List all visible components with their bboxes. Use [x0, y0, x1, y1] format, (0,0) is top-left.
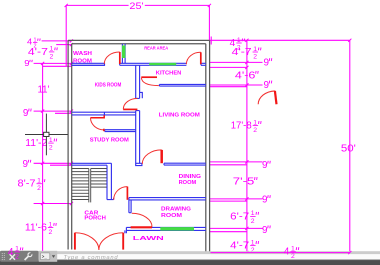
door D5 study room [90, 115, 104, 131]
dim text 4half-inch right [230, 37, 245, 52]
dimension line B overlay [211, 251, 352, 254]
dim text 4ft-7half left [28, 46, 57, 61]
svg-text:2: 2 [253, 53, 257, 60]
dim text 9in right kitchen-bottom [264, 80, 272, 91]
left ext line 9in kids-study b [55, 112, 71, 114]
door D10 gate right leaf [99, 233, 123, 250]
svg-text:2: 2 [291, 253, 295, 260]
right ext line 9in kitchen-top b [210, 66, 247, 68]
wall corridor south (study north-east) [105, 130, 136, 132]
svg-text:7'-5: 7'-5 [233, 177, 255, 188]
wall stairs east [107, 163, 114, 199]
window W3 lawn wall (green) [160, 227, 194, 231]
door D7 stairs/porch [114, 187, 128, 200]
right ext line 9in kitchen-top a [210, 61, 263, 63]
dim text 11ft-2half left [25, 137, 56, 152]
svg-text:9: 9 [23, 108, 29, 119]
left ext line 9in study-stairs b [50, 164, 71, 166]
svg-text:ROOM: ROOM [179, 180, 197, 186]
exterior wall right [206, 40, 210, 251]
extension stub right 4half [210, 37, 212, 45]
door D2 rear area [186, 52, 200, 64]
command bar icon block [0, 251, 39, 262]
door D1 washroom [104, 52, 120, 64]
svg-text:4'-7: 4'-7 [28, 47, 49, 58]
right ext line 9in dining-drawing b [210, 200, 247, 202]
svg-text:4'-7: 4'-7 [232, 47, 253, 58]
svg-text:LAWN: LAWN [133, 236, 165, 242]
svg-text:8'-7: 8'-7 [18, 179, 36, 190]
dim text 9in right living [262, 160, 270, 171]
svg-text:2: 2 [251, 218, 255, 225]
svg-text:2: 2 [49, 229, 53, 236]
wall spine upper (kids/kitchen) [136, 65, 140, 98]
svg-text:9: 9 [262, 195, 268, 206]
dimension 50' text [341, 144, 356, 155]
wall spine lower (kids/living) [136, 111, 142, 166]
dim text 9in right kitchen-top [264, 58, 272, 69]
svg-text:9: 9 [264, 80, 270, 91]
exterior wall left [68, 40, 72, 249]
wall drawing west [129, 198, 131, 213]
wall kids/study [72, 112, 136, 115]
dim text 9in left washroom [24, 59, 32, 68]
label CAR PORCH [84, 211, 106, 222]
left ext line 9in kids-study a [34, 110, 73, 113]
bottom dimension line B [211, 251, 350, 254]
label LIVING ROOM [159, 112, 201, 118]
dim text 9in left study [23, 159, 31, 170]
door D8 drawing room [131, 213, 152, 227]
wall washroom-east [122, 44, 125, 64]
wall drawing north (dining south) [129, 198, 206, 200]
dim text 4ft-7half right-bottom [230, 239, 258, 254]
svg-text:DRAWING: DRAWING [161, 207, 191, 213]
svg-text:LIVING ROOM: LIVING ROOM [159, 112, 201, 118]
dimension 25' line (top) [65, 4, 211, 7]
door D11 block symbol (outside right) [258, 91, 276, 104]
dim text 4half bottom-left [8, 246, 23, 261]
right ext line 9in dining-drawing a [210, 198, 263, 200]
svg-text:4: 4 [284, 247, 290, 258]
svg-text:2: 2 [253, 127, 257, 134]
svg-text:>_: >_ [42, 254, 48, 259]
right ext line 9in drawing-lawn a [210, 227, 263, 229]
svg-text:KITCHEN: KITCHEN [156, 70, 182, 76]
dim text 4half-inch left [27, 38, 40, 50]
door D9 gate left leaf [75, 233, 99, 250]
wall stub at gate right [125, 230, 127, 233]
svg-text:50': 50' [341, 144, 356, 155]
wall kitchen-south [159, 84, 205, 86]
svg-text:STUDY ROOM: STUDY ROOM [90, 137, 130, 143]
right ext line 9in drawing-lawn b [210, 231, 247, 233]
svg-text:Type a command: Type a command [64, 255, 119, 261]
dim text 7ft-5 right [233, 177, 257, 188]
extension line top-right [208, 5, 210, 40]
left ext line 9in washroom b [43, 65, 72, 67]
wall rear-south segment3 [201, 63, 206, 65]
svg-text:REAR AREA: REAR AREA [144, 45, 169, 50]
svg-text:2: 2 [15, 253, 19, 260]
exterior wall top [68, 40, 210, 43]
svg-text:11': 11' [38, 84, 50, 95]
command bar background [0, 251, 380, 260]
right ext line 9in living-dining b [210, 164, 247, 166]
left ext line 4-7half [56, 43, 73, 46]
dim text 4ft-7half right-top [232, 46, 261, 61]
label DINING ROOM [179, 174, 201, 186]
dim text 17ft-8half right [231, 119, 261, 134]
right ext line 9in kitchen-bottom a [210, 84, 263, 86]
wall living/dining [164, 163, 206, 165]
svg-text:9: 9 [23, 159, 29, 170]
right ext line 9in living-dining a [210, 161, 263, 163]
taskbar dark strip [0, 260, 380, 265]
label KITCHEN [156, 70, 182, 76]
stairs [72, 169, 107, 203]
left ext line 9in washroom a [34, 62, 73, 65]
svg-text:4'-6: 4'-6 [235, 70, 256, 81]
label REAR AREA [144, 45, 169, 50]
dim text 4half bottom-right [284, 246, 299, 261]
wall rear-south segment2 (window part) [120, 63, 187, 65]
svg-text:9: 9 [262, 160, 268, 171]
window W1 rear/kitchen north (green) [149, 63, 176, 66]
dim text 9in right drawing [262, 225, 270, 236]
label LAWN [133, 236, 165, 242]
label KIDS ROOM [95, 82, 122, 88]
svg-text:6'-7: 6'-7 [230, 211, 249, 222]
svg-text:2: 2 [49, 145, 53, 152]
crosshair cursor [25, 114, 68, 156]
wall stairs north (study south) [72, 163, 112, 165]
right vertical dimension line [245, 39, 248, 253]
svg-text:9: 9 [24, 59, 30, 68]
label WASH ROOM [73, 51, 92, 64]
svg-text:9: 9 [264, 58, 270, 69]
svg-text:4: 4 [27, 38, 33, 47]
dim text 6ft-7half right [230, 210, 258, 225]
dim text 9in right dining [262, 195, 270, 206]
svg-text:11'-2: 11'-2 [25, 138, 47, 149]
svg-text:2: 2 [50, 53, 54, 60]
svg-text:17'-8: 17'-8 [231, 121, 252, 132]
extension line right top long [210, 39, 350, 41]
extension line top-left [65, 5, 67, 66]
svg-text:KIDS ROOM: KIDS ROOM [95, 82, 122, 88]
command prompt box [39, 251, 58, 262]
left ext line 4half [42, 39, 73, 42]
svg-text:25': 25' [129, 1, 143, 12]
door D3 kitchen [141, 77, 159, 85]
dimension 50' line (right) [348, 39, 351, 253]
left ext line 9in study-stairs a [34, 162, 73, 165]
door D6 living room [142, 150, 161, 164]
dim text 9in left kids [23, 108, 31, 119]
wall drawing south / lawn north [126, 227, 205, 230]
dim text 11ft-6half left [25, 221, 56, 236]
label STUDY ROOM [90, 137, 130, 143]
window W2 washroom east (green) [122, 45, 125, 58]
left ext line stairs-porch [34, 202, 73, 205]
svg-text:WASH: WASH [73, 51, 92, 57]
svg-text:PORCH: PORCH [84, 216, 106, 222]
svg-text:4: 4 [8, 247, 14, 258]
dim text 4ft-6 right [235, 70, 258, 81]
svg-text:4'-7: 4'-7 [230, 241, 249, 252]
right ext line 9in kitchen-bottom b [210, 86, 247, 88]
label DRAWING ROOM [161, 207, 191, 220]
svg-text:11'-6: 11'-6 [25, 222, 47, 233]
wall washroom-south / rear-south segment1 [72, 63, 105, 65]
left vertical dimension line [41, 62, 44, 252]
dimension 25' text [129, 1, 143, 12]
dim text 8ft-7half left [18, 178, 45, 193]
svg-text:2: 2 [37, 185, 41, 192]
door D4 kids room [123, 98, 137, 109]
dim text 11ft left [38, 84, 50, 95]
svg-text:ROOM: ROOM [161, 213, 182, 219]
command bar hint text [64, 255, 119, 261]
svg-text:9: 9 [262, 225, 268, 236]
svg-text:ROOM: ROOM [73, 58, 92, 64]
wall spine door jamb notch [140, 92, 143, 98]
